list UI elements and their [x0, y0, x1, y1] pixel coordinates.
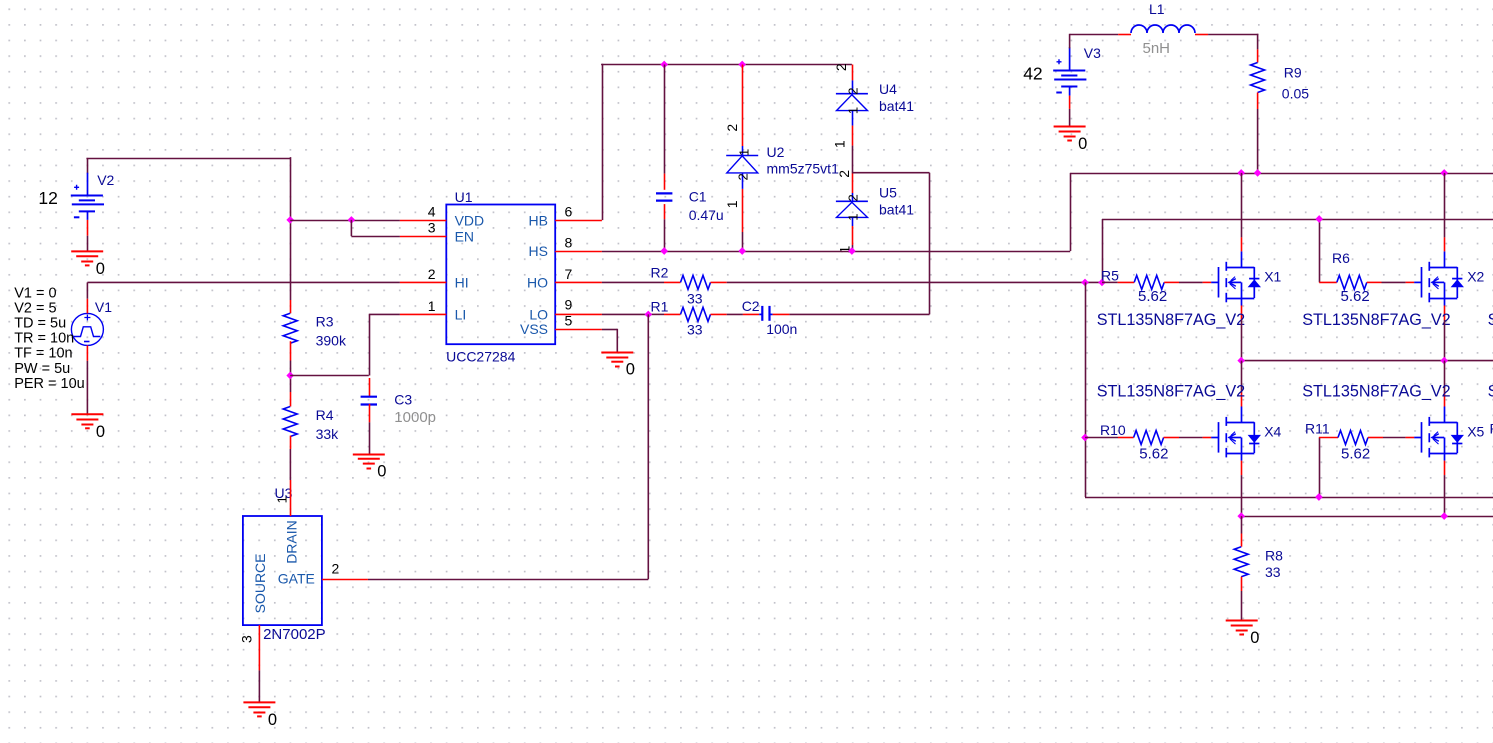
svg-text:2: 2	[332, 561, 340, 577]
svg-text:33k: 33k	[316, 426, 340, 442]
svg-text:UCC27284: UCC27284	[446, 348, 515, 364]
svg-text:V3: V3	[1084, 45, 1101, 61]
capacitor C1	[664, 65, 666, 174]
ground 0 at VSS	[601, 352, 633, 354]
node R6 drop junction	[1315, 215, 1323, 223]
inductor L1	[1118, 34, 1131, 36]
svg-text:8: 8	[565, 235, 573, 251]
svg-text:STL135N8F7AG_V2: STL135N8F7AG_V2	[1302, 382, 1450, 400]
svg-text:U5: U5	[879, 185, 897, 201]
pin 1 LI	[400, 313, 446, 315]
svg-text:DRAIN: DRAIN	[284, 520, 300, 564]
svg-text:1: 1	[428, 298, 436, 314]
wire X2 drain	[1444, 173, 1446, 238]
wire V3 to ground	[1069, 109, 1071, 126]
svg-text:0: 0	[1250, 629, 1259, 647]
svg-text:2: 2	[428, 266, 436, 282]
svg-text:0: 0	[96, 260, 105, 278]
svg-text:V2: V2	[97, 172, 114, 188]
pin 4 VDD	[400, 220, 446, 222]
svg-text:STL135N8F7AG_V2: STL135N8F7AG_V2	[1097, 382, 1245, 400]
pin 9 LO	[555, 313, 602, 315]
ground 0 under U3	[243, 701, 275, 703]
svg-text:V1: V1	[95, 299, 112, 315]
svg-text:0.05: 0.05	[1282, 85, 1309, 101]
pin 8 HS	[555, 251, 602, 253]
svg-text:HS: HS	[529, 243, 548, 259]
svg-text:C3: C3	[394, 392, 412, 408]
svg-text:0: 0	[377, 463, 386, 481]
zener diode U2	[742, 65, 744, 147]
pin 1 DRAIN of U3	[290, 480, 292, 516]
node EN tap junction	[348, 216, 356, 224]
ground 0 under C3	[353, 454, 385, 456]
wire C3 to ground	[369, 422, 371, 454]
capacitor C2	[743, 313, 759, 315]
svg-text:X1: X1	[1264, 268, 1281, 284]
node X1-X4 junction	[1237, 357, 1245, 365]
node C1 top junction	[660, 61, 668, 69]
resistor R3	[290, 300, 292, 313]
wire R8 to ground	[1241, 591, 1243, 620]
svg-text:HI: HI	[455, 274, 469, 290]
pin 3 EN	[400, 236, 446, 238]
svg-text:EN: EN	[455, 228, 474, 244]
node LO-R1 junction	[644, 311, 652, 319]
transistor X5	[1414, 437, 1421, 439]
svg-text:TF = 10n: TF = 10n	[14, 346, 72, 362]
svg-text:5: 5	[565, 312, 573, 328]
wire VDD feed	[290, 220, 400, 222]
svg-text:R11: R11	[1305, 421, 1330, 437]
resistor R4	[290, 392, 292, 407]
pin 2 HI	[400, 281, 446, 283]
wire X5 drain	[1444, 361, 1446, 393]
svg-text:R6: R6	[1332, 250, 1350, 266]
svg-text:2: 2	[846, 88, 861, 95]
node X2-X5 junction	[1440, 357, 1448, 365]
wire V2 top rail to R3 column	[87, 158, 89, 174]
svg-text:X4: X4	[1264, 424, 1281, 440]
wire X1 source to mid rail	[1241, 320, 1243, 361]
svg-text:bat41: bat41	[879, 201, 914, 217]
wire X5 source to bottom rail	[1444, 475, 1446, 516]
svg-text:HO: HO	[527, 274, 548, 290]
resistor R8	[1241, 516, 1243, 533]
resistor R1	[648, 313, 664, 315]
wire X1 drain	[1241, 173, 1243, 238]
ground 0 under V1	[71, 413, 103, 415]
svg-text:1: 1	[737, 149, 752, 156]
pulse source V1	[71, 313, 103, 345]
svg-text:SOURCE: SOURCE	[252, 553, 268, 613]
svg-text:U4: U4	[879, 81, 897, 97]
node R10 junction	[1081, 434, 1089, 442]
svg-text:390k: 390k	[316, 333, 347, 349]
svg-text:X5: X5	[1467, 424, 1484, 440]
svg-text:R1: R1	[1490, 421, 1493, 437]
wire HI net from V1 to U1 pin 2	[87, 281, 400, 283]
svg-text:6: 6	[565, 203, 573, 219]
svg-text:LI: LI	[455, 306, 467, 322]
svg-text:1000p: 1000p	[394, 409, 436, 426]
svg-text:X2: X2	[1467, 268, 1484, 284]
wire switch mid rail	[1241, 360, 1493, 362]
node HO branch junction	[1081, 279, 1089, 287]
node R9 bottom junction	[1254, 169, 1262, 177]
svg-text:ST: ST	[1488, 382, 1493, 400]
svg-text:33: 33	[687, 290, 703, 306]
svg-text:R9: R9	[1284, 65, 1302, 81]
svg-text:5.62: 5.62	[1341, 288, 1370, 305]
op-amp U1 gate driver body	[446, 205, 555, 345]
svg-text:2: 2	[833, 63, 849, 71]
svg-text:3: 3	[239, 635, 255, 643]
diode U5	[852, 173, 854, 193]
svg-text:1: 1	[275, 496, 290, 503]
transistor X1	[1211, 281, 1218, 283]
resistor R6	[1319, 281, 1337, 283]
svg-text:0: 0	[626, 361, 635, 379]
svg-text:5.62: 5.62	[1138, 288, 1167, 305]
svg-text:V2 = 5: V2 = 5	[14, 301, 56, 317]
svg-text:VSS: VSS	[520, 321, 548, 337]
wire L1 to R9	[1208, 34, 1258, 36]
wire VSS to ground	[602, 329, 617, 331]
ground 0 under V3	[1054, 126, 1086, 128]
svg-text:1: 1	[846, 213, 861, 220]
transistor X4	[1211, 437, 1218, 439]
wire EN jog	[350, 220, 352, 236]
svg-text:1: 1	[846, 107, 861, 114]
svg-text:2N7002P: 2N7002P	[263, 626, 326, 643]
svg-text:TR = 10n: TR = 10n	[14, 331, 74, 347]
node R8 junction	[1237, 512, 1245, 520]
svg-text:2: 2	[846, 194, 861, 201]
svg-text:HB: HB	[529, 212, 548, 228]
svg-text:0: 0	[268, 711, 277, 729]
resistor R9	[1257, 49, 1259, 62]
svg-text:ST: ST	[1488, 311, 1493, 329]
wire R9 to switch rail	[1257, 109, 1259, 173]
svg-text:STL135N8F7AG_V2: STL135N8F7AG_V2	[1097, 311, 1245, 329]
pin 3 SOURCE of U3	[258, 625, 260, 670]
svg-text:5nH: 5nH	[1143, 40, 1171, 57]
node HS-C1 junction	[660, 247, 668, 255]
svg-text:9: 9	[565, 296, 573, 312]
node HO-R5 junction	[1098, 279, 1106, 287]
wire LO to U3 gate riser	[647, 314, 649, 579]
svg-text:mm5z75vt1: mm5z75vt1	[767, 161, 840, 177]
node X5 source junction	[1440, 512, 1448, 520]
node X2 drain junction	[1440, 169, 1448, 177]
svg-text:5.62: 5.62	[1139, 446, 1168, 463]
pin 5 VSS	[555, 329, 602, 331]
wire HS net	[602, 251, 1070, 253]
wire HB riser to bootstrap rail	[602, 64, 604, 220]
voltage source V3	[1069, 47, 1071, 70]
wire V3 top to L1	[1069, 34, 1071, 49]
svg-text:VDD: VDD	[455, 212, 485, 228]
svg-text:V1 = 0: V1 = 0	[14, 286, 56, 302]
wire HO down to low-side gates	[1085, 282, 1087, 497]
voltage source V2	[87, 173, 89, 196]
svg-text:3: 3	[428, 220, 436, 236]
svg-text:2: 2	[724, 124, 740, 132]
svg-text:42: 42	[1023, 64, 1042, 84]
svg-text:4: 4	[428, 203, 436, 219]
transistor U3 2N7002P body	[243, 516, 322, 625]
svg-text:33: 33	[687, 322, 703, 338]
svg-text:PER = 10u: PER = 10u	[14, 376, 85, 392]
resistor R10	[1085, 437, 1118, 439]
wire divider tap to C3/LI	[290, 375, 369, 377]
svg-text:100n: 100n	[766, 321, 797, 337]
pin 2 GATE of U3	[322, 579, 368, 581]
svg-text:12: 12	[38, 188, 57, 208]
wire V1 to ground	[86, 361, 88, 414]
wire X4 drain	[1241, 361, 1243, 393]
wire LO to R1	[602, 313, 648, 315]
svg-text:1: 1	[724, 200, 740, 208]
node U2 top junction	[738, 61, 746, 69]
svg-text:C1: C1	[689, 189, 707, 205]
wire R4 to U3 drain	[289, 449, 291, 480]
ground 0 under V2	[71, 250, 103, 252]
wire bootstrap loop to C2	[852, 172, 930, 174]
node R11 drop junction	[1315, 493, 1323, 501]
resistor R11	[1319, 437, 1338, 439]
wire bottom rail	[1241, 516, 1493, 518]
transistor X2	[1414, 281, 1421, 283]
pin 7 HO	[555, 281, 602, 283]
svg-text:5.62: 5.62	[1341, 446, 1370, 463]
ground 0 under R8	[1226, 620, 1258, 622]
resistor R5	[1102, 281, 1118, 283]
svg-text:L1: L1	[1149, 1, 1165, 17]
svg-text:7: 7	[565, 266, 573, 282]
svg-text:bat41: bat41	[879, 98, 914, 114]
node HS-U2 junction	[738, 247, 746, 255]
node X1 drain junction	[1237, 169, 1245, 177]
svg-text:GATE: GATE	[278, 571, 315, 587]
wire X4 source to bottom rail	[1241, 475, 1243, 516]
node VDD junction at V2 rail	[286, 216, 294, 224]
svg-text:R4: R4	[316, 407, 334, 423]
capacitor C3	[369, 378, 371, 397]
pin 6 HB	[555, 220, 602, 222]
svg-text:0.47u: 0.47u	[689, 207, 724, 223]
svg-text:R5: R5	[1101, 268, 1119, 284]
wire V2 to ground	[87, 236, 89, 252]
svg-text:TD = 5u: TD = 5u	[14, 316, 66, 332]
wire R3 to R4	[290, 361, 292, 393]
svg-text:R3: R3	[316, 314, 334, 330]
wire X2 source to mid rail	[1444, 320, 1446, 361]
svg-text:R1: R1	[651, 299, 669, 315]
svg-text:R2: R2	[651, 264, 669, 280]
svg-text:2: 2	[736, 173, 751, 180]
resistor R2	[602, 281, 664, 283]
svg-text:2: 2	[836, 170, 852, 178]
svg-text:U2: U2	[767, 144, 785, 160]
svg-text:STL135N8F7AG_V2: STL135N8F7AG_V2	[1302, 311, 1450, 329]
diode U4	[852, 65, 854, 81]
svg-text:R10: R10	[1100, 422, 1126, 438]
node HS-U5 junction	[848, 247, 856, 255]
svg-text:1: 1	[831, 140, 847, 148]
svg-text:33: 33	[1265, 564, 1281, 580]
svg-text:0: 0	[96, 423, 105, 441]
node R3-R4 junction	[286, 372, 294, 380]
svg-text:R8: R8	[1265, 547, 1283, 563]
svg-text:PW = 5u: PW = 5u	[14, 361, 70, 377]
wire gate feed rail	[1102, 219, 1104, 282]
svg-text:0: 0	[1078, 135, 1087, 153]
svg-text:C2: C2	[742, 298, 760, 314]
wire HO net to bridge	[727, 281, 1102, 283]
svg-text:U1: U1	[455, 189, 473, 205]
wire U3 source to ground	[258, 670, 260, 702]
